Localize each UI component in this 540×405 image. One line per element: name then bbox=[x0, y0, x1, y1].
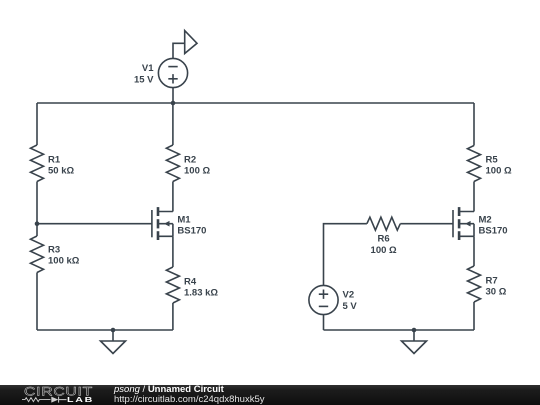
svg-text:R1: R1 bbox=[48, 155, 61, 166]
transistor M2 bbox=[453, 207, 474, 240]
svg-text:100 Ω: 100 Ω bbox=[486, 166, 512, 177]
junction dot gate tap bbox=[35, 221, 40, 226]
label M2 BS170 bbox=[479, 214, 508, 236]
label M1 BS170 bbox=[177, 214, 206, 236]
junction dot left ground bbox=[111, 328, 116, 333]
wire R5 to M2 drain bbox=[473, 182, 475, 212]
wire R7 to bottom bbox=[473, 302, 475, 330]
resistor R1 bbox=[31, 145, 44, 182]
svg-text:BS170: BS170 bbox=[177, 226, 206, 237]
svg-text:R7: R7 bbox=[486, 275, 498, 286]
svg-text:R2: R2 bbox=[184, 155, 196, 166]
label R4 value bbox=[184, 276, 218, 298]
footer url line bbox=[114, 395, 265, 405]
wire M2 source to R7 bbox=[473, 236, 475, 266]
svg-text:R5: R5 bbox=[486, 155, 499, 166]
footer credit line bbox=[114, 385, 224, 395]
logo diode bbox=[51, 397, 58, 403]
ground left bbox=[101, 330, 126, 354]
label R5 value bbox=[486, 155, 512, 177]
ground right bbox=[402, 330, 427, 354]
wire left rail middle bbox=[36, 182, 38, 237]
logo resistor zigzag bbox=[22, 398, 51, 402]
resistor R7 bbox=[468, 266, 481, 302]
label V2 value bbox=[343, 290, 358, 313]
wire R6 right to M2 gate bbox=[400, 223, 453, 225]
node flag at V1 top bbox=[173, 31, 197, 59]
junction dot V1/top rail bbox=[171, 101, 176, 106]
wire R4 to bottom bbox=[172, 303, 174, 330]
resistor R4 bbox=[166, 267, 179, 303]
svg-text:1.83 kΩ: 1.83 kΩ bbox=[184, 288, 218, 299]
svg-text:5 V: 5 V bbox=[343, 301, 358, 312]
svg-text:R3: R3 bbox=[48, 245, 60, 256]
transistor M1 bbox=[152, 207, 173, 240]
svg-text:R4: R4 bbox=[184, 276, 197, 287]
label R6 value bbox=[371, 234, 397, 256]
wire left rail upper bbox=[36, 103, 38, 145]
wire V1 to top rail bbox=[172, 88, 174, 103]
wire left rail lower bbox=[36, 273, 38, 331]
svg-text:V1: V1 bbox=[142, 63, 154, 74]
label R2 value bbox=[184, 155, 210, 177]
wire bottom left bbox=[37, 329, 173, 331]
svg-text:100 Ω: 100 Ω bbox=[184, 166, 210, 177]
svg-text:100 kΩ: 100 kΩ bbox=[48, 256, 80, 267]
voltage source V1 bbox=[158, 58, 187, 87]
resistor R3 bbox=[31, 236, 44, 273]
svg-text:15 V: 15 V bbox=[134, 75, 154, 86]
wire right rail upper bbox=[473, 103, 475, 146]
svg-text:BS170: BS170 bbox=[479, 226, 508, 237]
label R1 value bbox=[48, 155, 74, 177]
label V1 value bbox=[134, 63, 154, 86]
wire mid rail upper bbox=[172, 103, 174, 145]
wire M1 source to R4 bbox=[172, 236, 174, 267]
svg-text:30 Ω: 30 Ω bbox=[486, 287, 507, 298]
label R7 value bbox=[486, 275, 507, 297]
voltage source V2 bbox=[309, 285, 338, 314]
svg-text:R6: R6 bbox=[378, 234, 390, 245]
resistor R5 bbox=[468, 146, 481, 182]
svg-text:M2: M2 bbox=[479, 214, 492, 225]
wire R6 left to V2 bbox=[324, 224, 367, 286]
wire M1 gate bbox=[37, 223, 152, 225]
wire bottom right bbox=[324, 329, 475, 331]
resistor R6 bbox=[367, 217, 400, 230]
wire top rail bbox=[37, 102, 474, 104]
label R3 value bbox=[48, 245, 80, 267]
resistor R2 bbox=[166, 145, 179, 182]
CircuitLab logo bbox=[0, 385, 110, 405]
junction dot right ground bbox=[412, 328, 417, 333]
svg-text:M1: M1 bbox=[177, 214, 191, 225]
svg-text:LAB: LAB bbox=[67, 396, 94, 404]
wire V2 to bottom bbox=[323, 315, 325, 330]
svg-text:100 Ω: 100 Ω bbox=[371, 245, 397, 256]
svg-text:V2: V2 bbox=[343, 290, 355, 301]
wire R2 to M1 drain bbox=[172, 182, 174, 212]
svg-text:50 kΩ: 50 kΩ bbox=[48, 166, 74, 177]
